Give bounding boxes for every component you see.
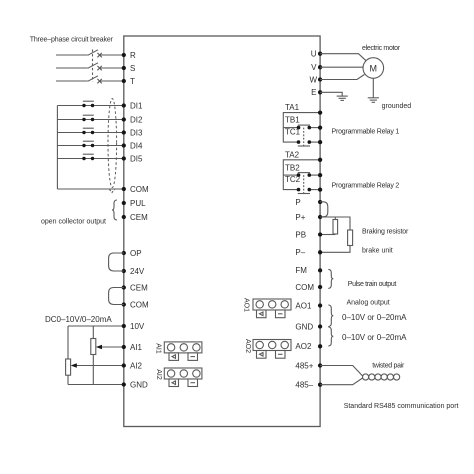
wire DI1: [57, 105, 123, 107]
svg-text:COM: COM: [295, 283, 314, 292]
terminal TB2: [318, 173, 322, 177]
svg-text:485+: 485+: [295, 361, 313, 370]
ground symbol (motor): [368, 98, 379, 103]
svg-text:open collector output: open collector output: [41, 219, 106, 226]
svg-text:AO2: AO2: [295, 342, 312, 351]
brake unit body: [348, 230, 353, 246]
wire potentiometer left branch: [67, 326, 69, 385]
wire potentiometer mid branch: [92, 326, 94, 385]
wire COM (digital common): [57, 188, 123, 190]
svg-text:DI1: DI1: [130, 101, 143, 110]
svg-text:U: U: [311, 50, 317, 59]
terminal OP: [122, 251, 126, 255]
AI2 jumper block: [164, 368, 202, 387]
terminal COM: [122, 187, 126, 191]
svg-text:AI1: AI1: [130, 343, 143, 352]
svg-text:GND: GND: [130, 380, 148, 389]
terminal E: [318, 90, 322, 94]
terminal 24V: [122, 269, 126, 273]
braking resistor RB body: [333, 220, 338, 235]
svg-text:brake unit: brake unit: [362, 247, 393, 254]
svg-text:W: W: [309, 75, 317, 84]
relay 2 bracket: [283, 160, 320, 190]
terminal TB1: [318, 125, 322, 129]
terminal DI4: [122, 143, 126, 147]
svg-text:TB1: TB1: [285, 116, 300, 125]
svg-text:TC1: TC1: [285, 128, 301, 137]
switch S3 (DI3): [82, 131, 85, 134]
relay 2 actuator link (dashed): [303, 175, 305, 193]
wire 485+ to twisted pair: [320, 366, 363, 377]
terminal PUL: [122, 201, 126, 205]
terminal GND (right): [318, 324, 322, 328]
terminal GND: [122, 382, 126, 386]
svg-text:V: V: [311, 63, 317, 72]
twisted pair coil: [363, 374, 400, 380]
wire V to motor: [320, 66, 363, 68]
svg-text:Pulse train output: Pulse train output: [348, 281, 397, 288]
terminal P: [318, 200, 322, 204]
svg-text:DI3: DI3: [130, 128, 143, 137]
terminal DI5: [122, 156, 126, 160]
svg-text:485–: 485–: [295, 381, 313, 390]
svg-text:0–10V or 0–20mA: 0–10V or 0–20mA: [342, 333, 407, 342]
terminal TA2: [318, 158, 322, 162]
switch S4 (DI4): [82, 144, 85, 147]
svg-text:PB: PB: [295, 230, 306, 239]
terminal DI1: [122, 103, 126, 107]
svg-text:AO1: AO1: [243, 298, 250, 312]
AI1 jumper block: [164, 342, 202, 361]
potentiometer RP1 body: [91, 339, 96, 355]
terminal V: [318, 65, 322, 69]
wire P+ branch: [320, 217, 350, 230]
svg-text:AO1: AO1: [295, 301, 312, 310]
circuit breaker pole S x-mark: [97, 66, 101, 70]
wire TB1 row: [283, 127, 298, 129]
terminal 485-: [318, 383, 322, 387]
svg-text:S: S: [130, 64, 135, 73]
svg-text:TB2: TB2: [285, 163, 300, 172]
wire 485- to twisted pair: [320, 378, 363, 385]
terminal 10V: [122, 324, 126, 328]
wire brake unit to P-: [320, 246, 350, 253]
terminal TC1: [318, 140, 322, 144]
terminal COM (right): [318, 285, 322, 289]
wire TC2 row: [309, 189, 320, 191]
circuit breaker pole R x-mark: [97, 53, 101, 57]
wire E to earth: [320, 92, 342, 96]
circuit breaker pole S blade: [88, 63, 98, 69]
svg-text:grounded: grounded: [382, 103, 412, 110]
svg-text:OP: OP: [130, 249, 142, 258]
switch S2 (DI2): [82, 118, 85, 121]
wire phase S input: [56, 67, 88, 69]
svg-text:TA1: TA1: [285, 103, 300, 112]
wire AI2 wiper: [76, 365, 124, 367]
wire GND bottom: [68, 384, 124, 386]
terminal FM: [318, 268, 322, 272]
brace PUL/CEM group: [112, 200, 117, 220]
relay 1 NO contact TC1: [297, 140, 301, 144]
terminal COM 2: [122, 302, 126, 306]
svg-text:AO2: AO2: [244, 339, 251, 353]
svg-text:P: P: [295, 198, 300, 207]
svg-text:TA2: TA2: [285, 151, 300, 160]
circuit breaker pole T blade: [88, 76, 98, 82]
terminal P-: [318, 250, 322, 254]
svg-text:AI1: AI1: [155, 343, 162, 354]
terminal AI1: [122, 345, 126, 349]
terminal TC2: [318, 187, 322, 191]
wire AI1 wiper: [101, 346, 124, 348]
circuit breaker pole T x-mark: [97, 79, 101, 83]
terminal R: [122, 53, 126, 57]
svg-text:twisted pair: twisted pair: [372, 362, 405, 369]
circuit breaker gang link (dashed): [92, 50, 94, 83]
svg-text:COM: COM: [130, 300, 149, 309]
wire motor to earth: [372, 78, 374, 97]
AO2 jumper block: [253, 340, 291, 359]
terminal CEM 2: [122, 285, 126, 289]
terminal DI3: [122, 130, 126, 134]
jumper link CEM to COM: [109, 288, 124, 305]
wire TB2 row: [283, 174, 298, 176]
svg-text:T: T: [130, 77, 135, 86]
svg-text:electric motor: electric motor: [362, 45, 401, 52]
svg-text:P–: P–: [295, 248, 305, 257]
terminal T: [122, 79, 126, 83]
svg-text:FM: FM: [295, 266, 307, 275]
svg-text:E: E: [311, 88, 316, 97]
svg-text:Three–phase circuit breaker: Three–phase circuit breaker: [30, 37, 114, 44]
terminal W: [318, 77, 322, 81]
terminal DI2: [122, 117, 126, 121]
svg-text:CEM: CEM: [130, 213, 148, 222]
ground symbol (terminal E): [337, 96, 348, 100]
relay 2 NC contact TB2: [297, 173, 301, 177]
motor M1: [363, 58, 384, 79]
wire W to motor: [320, 75, 364, 80]
switch S1 (DI1): [82, 104, 85, 107]
brace FM/COM group: [328, 269, 333, 288]
terminal AO2: [318, 344, 322, 348]
svg-text:Braking resistor: Braking resistor: [362, 228, 409, 235]
svg-text:GND: GND: [295, 322, 313, 331]
svg-text:Analog output: Analog output: [347, 299, 390, 306]
wire DI5: [57, 158, 123, 160]
shielded cable screen (dashed ellipse): [108, 99, 117, 188]
svg-text:DC0–10V/0–20mA: DC0–10V/0–20mA: [45, 315, 112, 324]
VFD inverter main body outline: [124, 36, 320, 427]
svg-text:24V: 24V: [130, 267, 145, 276]
svg-text:M: M: [370, 64, 378, 74]
svg-text:PUL: PUL: [130, 199, 146, 208]
jumper link P to P+: [320, 202, 328, 217]
brace GND/AO2 group: [328, 327, 333, 346]
svg-text:CEM: CEM: [130, 283, 148, 292]
svg-text:DI2: DI2: [130, 115, 143, 124]
svg-text:R: R: [130, 51, 136, 60]
svg-text:COM: COM: [130, 185, 149, 194]
svg-text:AI2: AI2: [130, 361, 143, 370]
wire U to motor: [320, 54, 366, 61]
jumper link OP to 24V: [109, 253, 124, 271]
svg-text:10V: 10V: [130, 322, 145, 331]
wire TC1 row: [309, 141, 320, 143]
AO1 jumper block: [253, 299, 291, 318]
wire PB: [320, 234, 335, 236]
arrow AI1 wiper head: [96, 345, 102, 349]
relay 2 NO contact TC2: [297, 188, 301, 192]
svg-text:DI5: DI5: [130, 154, 143, 163]
terminal S: [122, 66, 126, 70]
terminal CEM: [122, 215, 126, 219]
wire 10V supply: [68, 325, 124, 327]
terminal P+: [318, 215, 322, 219]
shield drain tail: [110, 190, 115, 193]
svg-text:Programmable Relay 1: Programmable Relay 1: [332, 129, 400, 136]
terminal AI2: [122, 363, 126, 367]
digital input common bus wire: [56, 106, 58, 190]
relay 1 actuator link (dashed): [303, 128, 305, 146]
potentiometer RP2 body: [66, 359, 71, 375]
terminal U: [318, 52, 322, 56]
arrow AI2 wiper head: [71, 363, 77, 367]
relay 1 NC contact TB1: [297, 126, 301, 130]
wire phase T input: [56, 80, 88, 82]
wire phase R input: [56, 54, 88, 56]
circuit breaker pole R blade: [88, 50, 98, 56]
terminal AO1: [318, 303, 322, 307]
wire DI2: [57, 119, 123, 121]
svg-text:Programmable Relay 2: Programmable Relay 2: [332, 182, 400, 189]
svg-text:P+: P+: [295, 213, 305, 222]
svg-text:0–10V or 0–20mA: 0–10V or 0–20mA: [342, 313, 407, 322]
svg-text:DI4: DI4: [130, 141, 143, 150]
wire DI3: [57, 132, 123, 134]
wire DI4: [57, 145, 123, 147]
terminal 485+: [318, 363, 322, 367]
terminal PB: [318, 232, 322, 236]
relay 1 bracket: [283, 113, 320, 143]
svg-text:TC2: TC2: [285, 175, 301, 184]
svg-text:Standard RS485 communication p: Standard RS485 communication port: [344, 403, 459, 410]
svg-text:AI2: AI2: [155, 369, 162, 380]
brace AO1/GND group: [328, 305, 333, 327]
switch S5 (DI5): [82, 157, 85, 160]
terminal TA1: [318, 110, 322, 114]
